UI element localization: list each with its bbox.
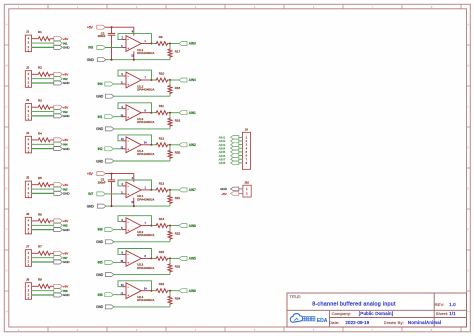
wire (32, 224, 54, 226)
wire (51, 285, 53, 287)
port GND (54, 191, 63, 195)
port AIN3 (179, 42, 187, 46)
wire (169, 144, 179, 146)
svg-text:E: E (467, 187, 469, 191)
svg-text:GND: GND (96, 305, 104, 309)
resistor R16 (155, 289, 169, 293)
resistor R1 (37, 37, 51, 41)
resistor R3 (37, 105, 51, 109)
svg-text:+: + (127, 293, 129, 297)
junction (133, 59, 135, 61)
svg-text:GND: GND (63, 192, 71, 196)
junction (133, 205, 135, 207)
wire (51, 184, 53, 186)
svg-text:H: H (6, 310, 8, 314)
svg-text:Drawn By:: Drawn By: (384, 320, 404, 325)
junction (169, 43, 171, 45)
wire (32, 46, 54, 48)
svg-text:R18: R18 (175, 86, 181, 90)
port AIN5 (179, 256, 187, 260)
svg-text:+: + (127, 192, 129, 196)
connector J2 (25, 71, 31, 88)
capacitor C1 (108, 174, 115, 207)
wire (32, 78, 54, 80)
wire (152, 290, 156, 292)
svg-text:OPA4340UA: OPA4340UA (137, 120, 154, 124)
svg-text:J10: J10 (244, 181, 249, 185)
port +5V (J10) (231, 192, 239, 196)
port GND (54, 293, 63, 297)
wire (152, 189, 156, 191)
feedback wire (118, 249, 152, 259)
svg-text:D: D (6, 146, 8, 150)
junction (151, 257, 153, 259)
svg-text:J4: J4 (26, 131, 30, 135)
resistor R17 (168, 44, 172, 60)
junction (169, 144, 171, 146)
svg-text:100nF: 100nF (98, 181, 106, 185)
svg-text:R22: R22 (175, 232, 181, 236)
wire (32, 148, 54, 150)
svg-text:G: G (6, 269, 8, 273)
port AIN8 (179, 224, 187, 228)
svg-text:IN4: IN4 (98, 82, 103, 86)
svg-text:D: D (467, 146, 469, 150)
wire (32, 290, 54, 292)
svg-text:+5V: +5V (63, 219, 68, 223)
svg-text:R1: R1 (38, 30, 42, 34)
svg-text:AIN6: AIN6 (189, 289, 196, 293)
resistor R19 (168, 113, 172, 129)
port +5V (channel U2.1) (97, 172, 106, 176)
wire (152, 257, 156, 259)
resistor R5 (37, 183, 51, 187)
svg-text:+: + (127, 261, 129, 265)
wire +5V rail (105, 27, 133, 35)
junction (169, 257, 171, 259)
wire (51, 220, 53, 222)
svg-text:AIN3: AIN3 (189, 42, 196, 46)
svg-text:IN6: IN6 (98, 293, 103, 297)
svg-text:GND: GND (96, 127, 104, 131)
port +5V (channel U1.1) (97, 25, 106, 29)
wire (32, 188, 54, 190)
svg-text:OPA4340UA: OPA4340UA (137, 233, 154, 237)
op-amp U2.2 pin numbers (121, 219, 146, 230)
port AIN5 (to J9 pin 5) (231, 150, 239, 154)
port AIN1 (to J9 pin 1) (231, 136, 239, 140)
svg-text:J8: J8 (26, 277, 30, 281)
svg-text:[Public Domain]: [Public Domain] (359, 311, 394, 316)
svg-text:R20: R20 (175, 151, 181, 155)
svg-text:GND: GND (63, 81, 71, 85)
port GND (54, 81, 63, 85)
wire (169, 257, 179, 259)
svg-text:R12: R12 (159, 136, 165, 140)
svg-text:+5V: +5V (63, 252, 68, 256)
junction (169, 79, 171, 81)
wire (169, 79, 179, 81)
svg-text:+5V: +5V (87, 26, 94, 30)
op-amp U2.3 (122, 251, 152, 267)
port GND (54, 45, 63, 49)
port IN8 (54, 289, 63, 293)
wire gnd rail (113, 95, 170, 97)
svg-text:J9: J9 (245, 128, 248, 132)
port +5V (54, 138, 63, 142)
svg-text:R23: R23 (175, 264, 181, 268)
wire (152, 112, 156, 114)
wire (51, 139, 53, 141)
svg-text:−: − (127, 74, 129, 78)
wire (113, 148, 121, 150)
port +5V (54, 219, 63, 223)
connector J4 (25, 136, 31, 153)
svg-text:+5V: +5V (87, 172, 94, 176)
svg-text:EDA: EDA (317, 318, 328, 324)
svg-text:Company:: Company: (332, 311, 352, 316)
op-amp U1.3 (122, 105, 152, 121)
resistor R18 (168, 80, 172, 96)
svg-text:−: − (127, 38, 129, 42)
svg-text:+5V: +5V (63, 183, 68, 187)
port GND (105, 240, 114, 244)
wire (169, 112, 179, 114)
svg-text:OPA4340UA: OPA4340UA (137, 197, 154, 201)
feedback wire (118, 70, 152, 80)
svg-text:IN1: IN1 (98, 115, 103, 119)
connector J6 (25, 217, 31, 234)
svg-text:J7: J7 (26, 244, 30, 248)
wire (105, 193, 121, 195)
port GND (54, 114, 63, 118)
svg-text:+: + (127, 115, 129, 119)
junction (151, 189, 153, 191)
svg-text:R17: R17 (175, 49, 181, 53)
port GND (105, 305, 114, 309)
svg-text:R15: R15 (159, 250, 165, 254)
port GND (97, 58, 106, 62)
junction (169, 290, 171, 292)
svg-text:GND: GND (220, 187, 228, 191)
wire (51, 73, 53, 75)
resistor R6 (37, 219, 51, 223)
port +5V (54, 37, 63, 41)
wire (32, 42, 54, 44)
resistor R24 (168, 291, 172, 307)
port GND (J10) (231, 187, 239, 191)
svg-text:Sheet:: Sheet: (436, 311, 449, 316)
svg-text:F: F (468, 228, 470, 232)
wire (51, 106, 53, 108)
svg-text:−: − (127, 184, 129, 188)
port +5V (54, 72, 63, 76)
connector J10 (243, 185, 251, 197)
svg-text:AIN7: AIN7 (189, 188, 196, 192)
port GND (54, 147, 63, 151)
op-amp U2.3 pin numbers (120, 252, 146, 263)
port IN8 (105, 228, 114, 232)
svg-text:Date:: Date: (329, 320, 340, 325)
port IN7 (97, 192, 106, 196)
svg-text:E: E (6, 187, 8, 191)
svg-text:R8: R8 (38, 278, 42, 282)
wire (239, 193, 243, 195)
svg-text:A: A (6, 23, 8, 27)
wire (105, 47, 121, 49)
svg-text:R24: R24 (175, 297, 181, 301)
svg-text:GND: GND (63, 114, 71, 118)
svg-text:IN2: IN2 (98, 147, 103, 151)
wire (113, 116, 121, 118)
svg-text:+: + (127, 228, 129, 232)
connector J5 (25, 181, 31, 198)
wire (169, 189, 179, 191)
connector J3 (25, 104, 31, 121)
wire (239, 162, 243, 164)
svg-text:R14: R14 (159, 217, 165, 221)
svg-text:2022-09-19: 2022-09-19 (345, 320, 369, 325)
port AIN4 (179, 78, 187, 82)
wire (32, 220, 37, 222)
svg-text:GND: GND (63, 260, 71, 264)
svg-text:REV:: REV: (435, 302, 445, 307)
resistor R15 (155, 256, 169, 260)
resistor R8 (37, 284, 51, 288)
port AIN2 (to J9 pin 2) (231, 139, 239, 143)
wire (169, 225, 179, 227)
svg-text:OPA4340UA: OPA4340UA (137, 266, 154, 270)
wire gnd rail (113, 306, 170, 308)
svg-text:OPA4340UA: OPA4340UA (137, 51, 154, 55)
port IN2 (105, 147, 114, 151)
svg-text:AIN8: AIN8 (219, 161, 226, 165)
op-amp U1.1 (122, 36, 152, 52)
port GND (97, 204, 106, 208)
title block frame (287, 293, 467, 327)
resistor R11 (155, 111, 169, 115)
junction (151, 79, 153, 81)
wire (113, 294, 121, 296)
wire (32, 285, 37, 287)
port AIN7 (to J9 pin 7) (231, 157, 239, 161)
svg-text:H: H (467, 310, 469, 314)
svg-text:GND: GND (87, 58, 95, 62)
svg-text:J5: J5 (26, 176, 30, 180)
svg-text:−: − (127, 220, 129, 224)
op-amp U2.4 (122, 283, 152, 299)
svg-text:GND: GND (63, 228, 71, 232)
op-amp U1.3 pin numbers (120, 106, 146, 117)
svg-text:+: + (127, 147, 129, 151)
port AIN7 (179, 188, 187, 192)
op-amp U2.1 (122, 182, 152, 198)
wire (239, 151, 243, 153)
resistor R21 (168, 190, 172, 206)
junction (151, 290, 153, 292)
svg-text:GND: GND (63, 46, 71, 50)
resistor R20 (168, 145, 172, 161)
port IN2 (54, 77, 63, 81)
wire (51, 38, 53, 40)
port IN7 (54, 256, 63, 260)
port IN3 (97, 46, 106, 50)
wire (32, 143, 54, 145)
wire (113, 83, 121, 85)
wire (32, 184, 37, 186)
op-amp U2.1 pin numbers (121, 183, 146, 194)
junction (151, 112, 153, 114)
svg-text:GND: GND (63, 147, 71, 151)
svg-text:J2: J2 (26, 65, 30, 69)
port IN6 (105, 293, 114, 297)
port IN5 (105, 260, 114, 264)
svg-text:J1: J1 (26, 30, 30, 34)
junction (111, 173, 113, 175)
svg-text:GND: GND (96, 159, 104, 163)
svg-text:J3: J3 (26, 98, 30, 102)
port GND (105, 94, 114, 98)
svg-text:GND: GND (96, 95, 104, 99)
frame row ticks left/right (4, 45, 470, 291)
wire (152, 79, 156, 81)
port AIN2 (179, 143, 187, 147)
port AIN6 (to J9 pin 6) (231, 154, 239, 158)
port AIN6 (179, 289, 187, 293)
wire (152, 225, 156, 227)
wire (239, 144, 243, 146)
wire (113, 229, 121, 231)
svg-text:+5V: +5V (63, 285, 68, 289)
wire (239, 140, 243, 142)
pin 11 V- (133, 198, 135, 206)
resistor R14 (155, 224, 169, 228)
svg-text:IN5: IN5 (98, 261, 103, 265)
svg-text:+5V: +5V (63, 105, 68, 109)
port +5V (54, 105, 63, 109)
EasyEDA logo (290, 314, 327, 325)
svg-text:R9: R9 (159, 35, 163, 39)
port +5V (54, 251, 63, 255)
port IN6 (54, 223, 63, 227)
junction (111, 205, 113, 207)
svg-text:R7: R7 (38, 245, 42, 249)
wire (32, 229, 54, 231)
svg-text:+5V: +5V (63, 73, 68, 77)
junction (151, 225, 153, 227)
wire (32, 192, 54, 194)
port +5V (54, 284, 63, 288)
pin 11 V- (133, 51, 135, 59)
junction (111, 26, 113, 28)
junction (169, 112, 171, 114)
wire gnd rail (113, 274, 170, 276)
feedback wire (118, 103, 152, 113)
op-amp U2.4 pin numbers (120, 284, 147, 295)
svg-text:+5V: +5V (63, 138, 68, 142)
svg-text:B: B (6, 64, 8, 68)
wire gnd rail (105, 59, 170, 61)
svg-text:OPA4340UA: OPA4340UA (137, 298, 154, 302)
wire gnd rail (113, 160, 170, 162)
resistor R13 (155, 188, 169, 192)
wire (169, 290, 179, 292)
wire (239, 155, 243, 157)
svg-text:AIN8: AIN8 (189, 224, 196, 228)
svg-text:R10: R10 (159, 72, 165, 76)
wire gnd rail (113, 241, 170, 243)
op-amp U1.2 (122, 72, 152, 88)
junction (169, 189, 171, 191)
resistor R2 (37, 72, 51, 76)
wire (32, 111, 54, 113)
wire (51, 252, 53, 254)
svg-text:R19: R19 (175, 119, 181, 123)
svg-text:R4: R4 (38, 131, 42, 135)
port AIN4 (to J9 pin 4) (231, 146, 239, 150)
svg-text:R6: R6 (38, 212, 42, 216)
port AIN8 (to J9 pin 8) (231, 161, 239, 165)
port +5V (54, 183, 63, 187)
svg-text:G: G (467, 269, 469, 273)
port AIN3 (to J9 pin 3) (231, 143, 239, 147)
connector J8 (25, 283, 31, 300)
svg-text:J6: J6 (26, 212, 30, 216)
port IN1 (54, 41, 63, 45)
wire +5V rail (105, 174, 133, 182)
svg-text:IN3: IN3 (88, 46, 93, 50)
svg-text:+: + (127, 46, 129, 50)
svg-text:F: F (6, 228, 8, 232)
op-amp U1.4 pin numbers (120, 138, 147, 149)
svg-text:1/1: 1/1 (449, 311, 456, 316)
port GND (54, 260, 63, 264)
port IN3 (54, 110, 63, 114)
svg-text:R16: R16 (159, 282, 165, 286)
svg-text:AIN5: AIN5 (189, 257, 196, 261)
svg-text:B: B (467, 64, 469, 68)
port AIN1 (179, 111, 187, 115)
svg-text:−: − (127, 107, 129, 111)
resistor R22 (168, 226, 172, 242)
svg-text:TITLE:: TITLE: (290, 295, 301, 299)
port GND (105, 273, 114, 277)
svg-text:GND: GND (96, 273, 104, 277)
svg-text:GND: GND (63, 293, 71, 297)
svg-text:IN8: IN8 (98, 228, 103, 232)
svg-text:OPA4340UA: OPA4340UA (137, 87, 154, 91)
junction (151, 144, 153, 146)
wire (32, 38, 37, 40)
resistor R9 (155, 42, 169, 46)
wire (32, 261, 54, 263)
wire (239, 136, 243, 138)
svg-text:+5V: +5V (221, 192, 226, 196)
connector J7 (25, 250, 31, 267)
svg-text:R11: R11 (159, 104, 164, 108)
wire (113, 261, 121, 263)
svg-text:AIN1: AIN1 (189, 111, 196, 115)
svg-text:100nF: 100nF (98, 34, 106, 38)
feedback wire (118, 216, 152, 226)
resistor R12 (155, 143, 169, 147)
wire gnd rail (113, 128, 170, 130)
svg-text:R13: R13 (159, 181, 165, 185)
junction (169, 225, 171, 227)
wire (32, 139, 37, 141)
svg-text:R3: R3 (38, 99, 42, 103)
svg-text:+5V: +5V (63, 37, 68, 41)
